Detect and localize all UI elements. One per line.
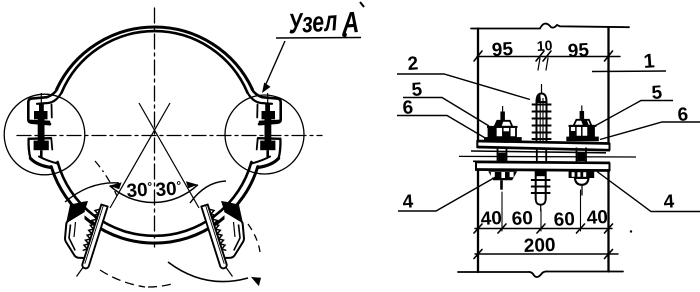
bottom dim ticks [474, 224, 613, 233]
svg-text:60: 60 [553, 209, 575, 231]
dark joint under plate [536, 171, 546, 176]
gap line above lower plate [473, 161, 610, 162]
centerline top [541, 84, 543, 93]
bottom break line with squiggle [458, 271, 623, 277]
svg-text:6: 6 [677, 104, 689, 126]
bolt centerline tick [40, 94, 42, 105]
label underline [276, 37, 361, 40]
column right edge lower [607, 170, 609, 272]
svg-text:Узел: Узел [287, 5, 339, 40]
dash arc right of right hex [248, 224, 260, 252]
lower flange plate [475, 162, 610, 163]
dash-dot arc upper right of left leg [95, 161, 117, 196]
misc hand arcs around legs [65, 161, 260, 287]
thread ticks upper [532, 105, 552, 140]
dome bottom [536, 199, 546, 205]
rod inner line [85, 206, 103, 264]
clamp band upper inner arc [62, 31, 248, 93]
dot between words [342, 32, 347, 37]
body lower [536, 171, 546, 200]
bolt tail [40, 150, 43, 157]
upper flange plate [459, 140, 636, 171]
dim ticks [474, 51, 613, 61]
tiny speck [630, 230, 632, 232]
right lug (mirror) [248, 90, 281, 168]
body sides upper [537, 101, 547, 142]
column right edge upper [607, 27, 609, 142]
upper hook flange [28, 90, 57, 125]
detail circle right [225, 95, 304, 174]
leader arrowhead [262, 83, 271, 94]
dashed arc bottom left [100, 270, 145, 287]
svg-text:40: 40 [480, 208, 502, 230]
svg-text:95: 95 [567, 40, 590, 62]
solid swing arc bottom right with arrow [168, 262, 248, 282]
right leg (mirror) [139, 103, 244, 277]
bolt shank (dark) [38, 119, 45, 141]
swoosh over right hex [190, 181, 226, 203]
bolt head (dark) [34, 111, 48, 119]
right bottom nut [569, 171, 595, 195]
detail circle left [4, 94, 85, 175]
right top bolt nut [566, 106, 599, 142]
svg-text:60: 60 [511, 208, 533, 230]
leader line [266, 41, 285, 84]
bottom dimension line 1 [475, 228, 612, 230]
bolt stem upper [39, 104, 44, 111]
vertical centerline [154, 8, 156, 247]
dome top [537, 94, 547, 103]
hex inner line [69, 225, 75, 251]
bottom dimension line 2 (200) [475, 253, 618, 255]
centerline bottom [540, 205, 542, 212]
hex head fill [65, 211, 85, 258]
svg-text:10: 10 [536, 37, 553, 54]
swoosh over left hex [65, 183, 119, 202]
column left edge upper [477, 29, 479, 142]
column left edge lower [477, 170, 479, 272]
svg-text:4: 4 [402, 191, 414, 213]
left top bolt nut [484, 106, 522, 142]
hex dark cap [67, 201, 89, 221]
svg-text:200: 200 [523, 235, 555, 257]
svg-text:1: 1 [643, 50, 656, 73]
clamp band upper outer arc [57, 27, 253, 89]
left leg: bolt support at 30deg [65, 103, 170, 277]
extension lines from bolts [502, 190, 581, 231]
hex head outline [65, 211, 85, 258]
bolt shanks crossing the gap [498, 148, 507, 162]
left lug (bolted flange joint) [28, 90, 61, 168]
inner core lines [540, 98, 543, 141]
arrowhead right of angle arc [186, 181, 198, 188]
serration zigzag [83, 209, 100, 250]
tick over A [360, 2, 364, 7]
svg-text:4: 4 [663, 191, 675, 213]
svg-text:2: 2 [407, 53, 419, 75]
small arrows under 10 ticks [538, 58, 548, 70]
lower hook flange [29, 137, 51, 140]
bolt rod (white filled) [82, 205, 107, 269]
angle dimension arc with arrows [110, 185, 198, 203]
body through gap [537, 148, 546, 163]
arrowhead left of angle arc [110, 182, 122, 189]
horizontal centerline [17, 135, 322, 137]
top break line with squiggle [471, 24, 629, 29]
dashed arc bottom middle [148, 284, 172, 287]
leg axis (30 deg line) [110, 103, 170, 208]
central threaded stud [531, 84, 552, 212]
svg-text:40: 40 [586, 207, 608, 229]
gap line below upper plate [471, 151, 606, 153]
svg-text:95: 95 [491, 39, 514, 61]
arrowhead of swing arc [249, 274, 263, 286]
clamp band lower inner arc [58, 162, 252, 236]
joint centerline long [459, 155, 636, 158]
thread ticks lower [531, 180, 551, 193]
left bottom nut (dark) [488, 171, 517, 189]
clamp band lower outer arc [51, 167, 258, 243]
nut (dark) [34, 141, 49, 151]
top dimension line [477, 56, 620, 58]
